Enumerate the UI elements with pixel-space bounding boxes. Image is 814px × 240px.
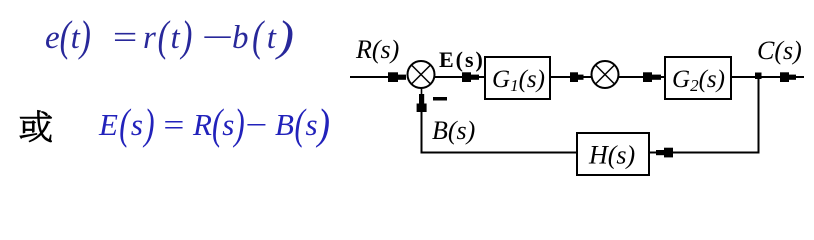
block G1 <box>485 57 550 99</box>
wire S2 to G2 <box>619 76 647 78</box>
summing junction S1 <box>408 61 435 88</box>
wire input to summing junction <box>350 76 392 78</box>
wire feedback up segment <box>421 108 423 154</box>
wire G2 to output <box>732 76 781 78</box>
arrowhead into summing junction S1 <box>388 72 406 82</box>
svg-text:G2(s): G2(s) <box>672 66 725 95</box>
node E(s) label <box>439 47 485 72</box>
wire output end <box>796 76 804 78</box>
arrowhead into S1 from below <box>417 94 427 112</box>
wire arrowhead to S2 <box>583 76 592 78</box>
takeoff junction node <box>755 73 762 80</box>
summing junction S2 <box>592 61 619 88</box>
svg-text:B(s): B(s) <box>432 116 475 145</box>
wire stub below S1 <box>421 87 423 96</box>
block H <box>577 133 649 175</box>
label 或 (or) <box>20 111 52 142</box>
svg-text:R(s): R(s) <box>355 35 399 64</box>
arrowhead into H <box>650 148 673 158</box>
node R(s) input label <box>355 35 399 64</box>
arrowhead into G2 <box>643 72 664 82</box>
equation line 2: E(s) = R(s) - B(s) <box>0 106 1 108</box>
equation line 1: e(t) = r(t) - b(t) <box>0 19 1 21</box>
arrowhead into G1 <box>462 72 484 82</box>
svg-text:C(s): C(s) <box>757 36 802 65</box>
svg-text:G1(s): G1(s) <box>492 66 545 95</box>
node B(s) label <box>432 116 475 145</box>
wire feedback left segment <box>421 152 577 154</box>
arrowhead output <box>780 72 796 82</box>
node C(s) output label <box>757 36 802 65</box>
wire S1 to G1 <box>435 76 467 78</box>
wire junction down <box>758 79 760 153</box>
block G2 <box>665 57 731 99</box>
wire G1 to S2 <box>551 76 570 78</box>
arrowhead after G1 <box>570 72 584 82</box>
svg-text:E(s): E(s) <box>439 47 485 72</box>
svg-text:H(s): H(s) <box>588 141 635 170</box>
wire feedback right segment <box>670 152 760 154</box>
minus sign at S1 <box>433 97 447 101</box>
